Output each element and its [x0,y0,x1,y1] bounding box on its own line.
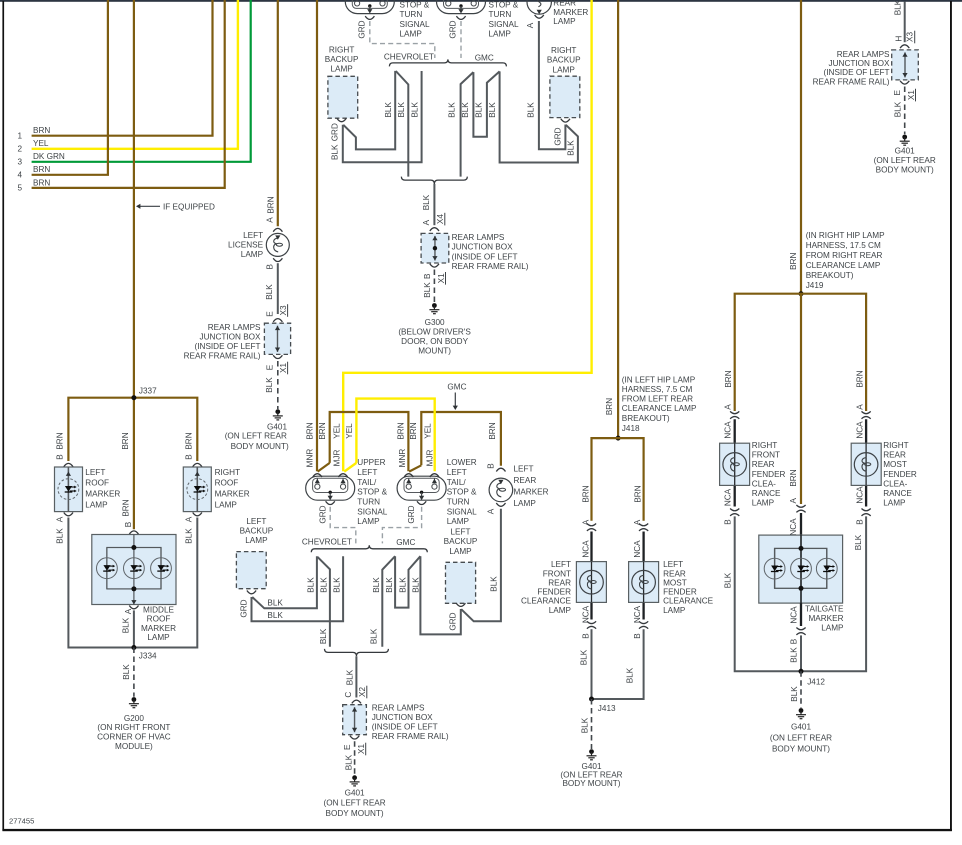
svg-text:FRONT: FRONT [543,569,571,578]
svg-text:BREAKOUT): BREAKOUT) [622,414,670,423]
node J413 [589,697,594,702]
wire NCA through right rear most clearance lamp [865,419,867,506]
wire BLK gmc backup grd to marker lamp [539,21,566,149]
label rear lamps junction box (top right) [813,50,890,86]
svg-text:X1: X1 [907,90,916,100]
svg-text:LAMP: LAMP [245,536,268,545]
lower stop & turn signal lamp connector (gmc) [437,0,486,14]
svg-text:LAMP: LAMP [85,501,108,510]
svg-text:YEL: YEL [33,139,49,148]
page bottom border [2,829,952,831]
svg-text:BRN: BRN [33,178,50,187]
label left rear most fender clearance lamp [663,560,714,615]
svg-text:YEL: YEL [345,423,354,439]
svg-text:NCA: NCA [724,421,733,439]
wire BRN J337 split to roof marker lamps [68,398,197,461]
wire BLK dashed to G200 [133,648,135,697]
left rear most fender clearance lamp [629,562,659,603]
svg-text:LEFT: LEFT [243,231,263,240]
svg-text:LAMP: LAMP [821,624,844,633]
left backup lamp (gmc) [446,562,476,603]
wire 5 BRN feed [32,0,225,188]
svg-text:BODY MOUNT): BODY MOUNT) [326,809,384,818]
svg-text:FENDER: FENDER [752,470,786,479]
svg-text:MARKER: MARKER [215,490,250,499]
label G401 (J413) [560,762,622,788]
svg-text:B: B [423,273,432,279]
connector B right rear most clearance [862,509,871,516]
svg-text:BLK: BLK [790,686,799,702]
label J419 breakout note [806,231,885,290]
svg-text:REAR LAMPS: REAR LAMPS [837,50,890,59]
svg-text:A: A [724,404,733,410]
svg-text:HARNESS, 7.5 CM: HARNESS, 7.5 CM [622,385,693,394]
svg-text:BACKUP: BACKUP [444,537,478,546]
svg-text:SIGNAL: SIGNAL [447,508,477,517]
svg-text:MODULE): MODULE) [115,742,153,751]
svg-text:B: B [487,463,496,469]
svg-text:LEFT: LEFT [246,517,266,526]
svg-text:LAMP: LAMP [241,250,264,259]
svg-text:FENDER: FENDER [537,588,571,597]
wire NCA through lamp [734,443,736,485]
grd dashed lead lower tail lamp [382,507,421,544]
wire BRN J419 to tailgate marker lamp [800,294,802,504]
svg-text:BLK: BLK [422,194,431,210]
svg-text:G401: G401 [345,788,365,797]
svg-text:DK GRN: DK GRN [33,152,65,161]
label G300 (below driver's door, on body mount) [398,318,471,356]
svg-text:(ON RIGHT FRONT: (ON RIGHT FRONT [97,723,170,732]
wire 2 YEL feed [32,0,238,149]
svg-text:(ON LEFT REAR: (ON LEFT REAR [225,431,287,440]
wire 4 BRN feed [32,0,108,175]
label left front rear fender clearance lamp [521,560,572,615]
svg-text:FENDER: FENDER [883,470,917,479]
svg-text:JUNCTION BOX: JUNCTION BOX [452,242,513,251]
svg-text:MARKER: MARKER [808,614,843,623]
wire YEL slant to MJR pin [344,463,356,472]
svg-text:A: A [855,404,864,410]
svg-text:REAR: REAR [663,569,686,578]
svg-text:MNR: MNR [398,449,407,468]
wire BLK gmc to brace (bottom) [382,556,395,647]
svg-text:BLK: BLK [567,140,576,156]
svg-text:CLEARANCE: CLEARANCE [521,597,572,606]
svg-text:B: B [724,519,733,525]
svg-text:HARNESS, 17.5 CM: HARNESS, 17.5 CM [806,241,881,250]
svg-text:J412: J412 [807,677,825,686]
svg-text:NCA: NCA [581,605,590,623]
svg-text:LAMP: LAMP [357,517,380,526]
svg-text:NCA: NCA [789,518,798,536]
svg-text:FENDER: FENDER [663,588,697,597]
svg-text:BLK: BLK [265,284,274,300]
svg-text:LAMP: LAMP [514,499,537,508]
svg-text:TURN: TURN [357,498,380,507]
svg-text:NCA: NCA [855,421,864,439]
wire BLK dashed to G300 [433,270,435,303]
right rear most fender clearance lamp [851,443,881,485]
svg-text:LOWER: LOWER [447,458,477,467]
svg-text:BLK: BLK [267,611,283,620]
svg-text:BLK: BLK [461,102,470,118]
svg-text:BLK: BLK [894,0,903,15]
svg-text:RANCE: RANCE [752,489,781,498]
svg-text:C: C [344,692,353,698]
label G401 (J412) [770,723,832,754]
svg-text:JUNCTION BOX: JUNCTION BOX [200,332,261,341]
ground G401 (J413) [587,749,597,760]
tailgate marker lamp [759,535,843,603]
svg-text:B: B [185,454,194,460]
svg-text:LAMP: LAMP [549,606,572,615]
wire BRN trunk to J337 [133,0,135,398]
svg-text:BRN: BRN [33,126,50,135]
svg-text:REAR FRAME RAIL): REAR FRAME RAIL) [813,77,890,86]
svg-text:RIGHT: RIGHT [329,45,354,54]
svg-text:GRD: GRD [407,505,416,523]
svg-text:BRN: BRN [789,469,798,486]
svg-text:BODY MOUNT): BODY MOUNT) [231,442,289,451]
wire BRN to left license lamp [277,0,279,226]
svg-text:A: A [526,22,535,28]
wire BLK tailgate lamp to J412 [800,635,802,671]
svg-text:MOST: MOST [663,578,687,587]
svg-text:BLK: BLK [333,577,342,593]
svg-text:RIGHT: RIGHT [883,441,908,450]
wire 3 DK GRN feed [32,0,251,162]
ground G401 (bottom centre) [350,775,360,786]
ground G401 (top right) [900,135,910,146]
svg-text:GMC: GMC [447,382,466,391]
ground G300 [429,303,439,314]
svg-text:MOST: MOST [883,460,907,469]
right roof marker lamp [183,467,211,512]
svg-text:BLK: BLK [331,144,340,160]
svg-text:GRD: GRD [331,123,340,141]
svg-text:LICENSE: LICENSE [228,240,264,249]
svg-text:BLK: BLK [581,717,590,733]
label right rear marker lamp (top) [553,0,588,26]
svg-text:B: B [789,638,798,644]
svg-text:LEFT: LEFT [514,465,534,474]
wire BLK dashed to G401 (top right) [904,87,906,135]
svg-text:BLK: BLK [346,669,355,685]
svg-text:4: 4 [17,171,22,180]
svg-text:LEFT: LEFT [447,468,467,477]
wire BLK right roof lamp to J334 [134,518,197,648]
grd dashed lead upper tail lamp [330,507,356,544]
svg-text:A: A [487,508,496,514]
connector A left rear most clearance [639,524,648,531]
svg-text:LAMP: LAMP [447,517,470,526]
svg-text:BLK: BLK [398,577,407,593]
wire BLK left front clearance to J413 [591,629,593,699]
svg-text:BLK: BLK [580,649,589,665]
left roof marker lamp [55,467,83,512]
svg-text:MIDDLE: MIDDLE [143,606,174,615]
label right backup lamp (gmc) [547,46,581,74]
svg-text:REAR FRAME RAIL): REAR FRAME RAIL) [184,351,261,360]
svg-text:LAMP: LAMP [400,30,423,39]
svg-text:NCA: NCA [790,606,799,624]
svg-text:BLK: BLK [854,534,863,550]
label J418 breakout note [622,375,697,433]
svg-text:BLK: BLK [344,754,353,770]
svg-text:STOP &: STOP & [357,488,387,497]
svg-text:(ON LEFT REAR: (ON LEFT REAR [874,156,936,165]
svg-text:BLK: BLK [122,664,131,680]
wire BRN trunk to J419 [800,0,802,294]
wire BRN slant to lower MNR pin [409,465,421,471]
svg-text:(BELOW DRIVER'S: (BELOW DRIVER'S [398,328,471,337]
svg-text:CLEA-: CLEA- [752,479,776,488]
label G200 (on right front corner of HVAC module) [97,714,171,751]
svg-text:B: B [56,454,65,460]
svg-text:REAR: REAR [514,476,537,485]
svg-text:SIGNAL: SIGNAL [357,508,387,517]
svg-text:H: H [894,36,903,42]
lower left tail/stop & turn signal lamp [397,476,446,500]
left license lamp [266,233,289,256]
svg-text:B: B [581,633,590,639]
brace gather to X4 [401,177,467,184]
svg-text:BACKUP: BACKUP [325,55,359,64]
connector B tailgate marker [796,628,805,635]
brace chevrolet/gmc (top) [389,59,506,66]
svg-text:BLK: BLK [423,282,432,298]
svg-text:J413: J413 [598,704,616,713]
svg-text:(IN LEFT HIP LAMP: (IN LEFT HIP LAMP [622,375,696,384]
svg-text:A: A [124,608,133,614]
svg-text:LAMP: LAMP [147,633,170,642]
wire NCA through lamp [865,443,867,485]
label lower left tail/stop & turn signal lamp [447,458,477,526]
node J337 [131,395,136,400]
wire YEL trunk to upper left tail lamp MJR [343,0,591,471]
svg-text:TAIL/: TAIL/ [447,478,467,487]
svg-text:REAR LAMPS: REAR LAMPS [372,704,425,713]
svg-text:BRN: BRN [724,370,733,387]
wire BLK left rear most clearance to J413 [592,629,644,699]
svg-text:MARKER: MARKER [141,624,176,633]
svg-text:J418: J418 [622,424,640,433]
wire BRN J418 split to left clearance lamps [592,438,644,521]
connector A right rear most clearance [862,411,871,418]
svg-text:B: B [124,521,133,527]
rear lamps junction box (X2/X1, bottom centre) [343,705,367,735]
svg-text:TAILGATE: TAILGATE [805,605,844,614]
svg-text:BODY MOUNT): BODY MOUNT) [562,779,620,788]
svg-text:BRN: BRN [488,422,497,439]
svg-text:BACKUP: BACKUP [547,56,581,65]
ground G401 (J412) [796,708,806,719]
wire BLK to X4 [433,184,435,225]
svg-text:YEL: YEL [424,423,433,439]
svg-text:BLK: BLK [265,377,274,393]
svg-text:G401: G401 [267,422,287,431]
svg-text:X1: X1 [437,273,446,283]
wire BLK license lamp to X3 [277,263,279,314]
wire BLK dashed to G401 (left) [277,361,279,409]
wire NCA into tailgate marker lamp [800,513,802,535]
svg-text:BLK: BLK [488,102,497,118]
svg-text:G200: G200 [124,714,144,723]
svg-text:STOP &: STOP & [489,1,519,10]
svg-text:BRN: BRN [267,196,276,213]
label right rear most fender clearance lamp [883,441,917,508]
brace chevrolet/gmc (centre) [311,545,427,552]
label rear lamps junction box (left) [184,323,261,361]
wire NCA through left rear most clearance lamp [642,532,644,620]
svg-text:NCA: NCA [855,486,864,504]
label stop & turn signal lamp (chevrolet) [400,1,430,39]
svg-text:CLEARANCE LAMP: CLEARANCE LAMP [622,404,697,413]
svg-text:LAMP: LAMP [883,499,906,508]
svg-text:CHEVROLET: CHEVROLET [384,52,434,61]
wire BLK gmc to brace [461,72,474,177]
wire BRN J337 to middle roof marker lamp [133,398,135,530]
svg-text:RIGHT: RIGHT [215,468,240,477]
svg-text:TURN: TURN [400,10,423,19]
svg-text:MARKER: MARKER [553,8,588,17]
svg-text:REAR LAMPS: REAR LAMPS [208,323,261,332]
svg-text:BLK: BLK [490,576,499,592]
label middle roof marker lamp [141,606,176,643]
wire BRN trunk to J418 [617,0,619,438]
svg-text:BLK: BLK [397,102,406,118]
svg-text:BLK: BLK [724,572,733,588]
svg-text:BLK: BLK [410,102,419,118]
label right roof marker lamp [215,468,250,510]
svg-text:BACKUP: BACKUP [240,527,274,536]
svg-text:GMC: GMC [475,54,494,63]
rear lamps junction box (top right) [892,50,919,80]
svg-text:REAR FRAME RAIL): REAR FRAME RAIL) [452,262,529,271]
wire BLK chevrolet backup grd [343,71,395,149]
label left rear marker lamp [514,465,549,509]
svg-text:MARKER: MARKER [514,488,549,497]
wire BLK left roof lamp to J334 [68,518,133,648]
wire BLK dashed to G401 (bottom centre) [354,741,356,775]
svg-text:MNR: MNR [305,449,314,468]
connector B left rear most clearance [639,621,648,628]
wire BLK to X2 [355,656,357,697]
svg-text:FRONT: FRONT [752,451,780,460]
svg-text:BRN: BRN [856,370,865,387]
label stop & turn signal lamp (gmc) [489,1,519,39]
svg-text:BRN: BRN [56,432,65,449]
svg-text:GRD: GRD [358,20,367,38]
svg-text:CLEARANCE: CLEARANCE [663,597,714,606]
svg-text:(INSIDE OF LEFT: (INSIDE OF LEFT [372,723,438,732]
connector B right front clearance [730,509,739,516]
svg-text:REAR: REAR [548,578,571,587]
svg-text:(INSIDE OF LEFT: (INSIDE OF LEFT [195,342,261,351]
svg-text:ROOF: ROOF [215,479,239,488]
middle roof marker lamp [92,535,176,605]
svg-text:LAMP: LAMP [752,499,775,508]
wire YEL link tail lamp MJR [356,399,434,472]
svg-text:LAMP: LAMP [449,547,472,556]
label left backup lamp (gmc) [444,528,478,556]
svg-text:GRD: GRD [553,127,562,145]
svg-text:A: A [185,516,194,522]
svg-text:BLK: BLK [319,628,328,644]
grd dashed lead, gmc stop lamp [460,21,462,58]
label rear lamps junction box (bottom centre) [372,704,449,742]
connector A left front clearance [587,524,596,531]
svg-text:FROM RIGHT REAR: FROM RIGHT REAR [806,251,883,260]
rear lamps junction box (left license branch) [264,323,290,354]
svg-text:ROOF: ROOF [85,479,109,488]
right backup lamp (chevrolet) [328,76,358,118]
svg-text:REAR FRAME RAIL): REAR FRAME RAIL) [372,732,449,741]
label G401 (bottom centre) [324,788,386,818]
brace gather to X2 [325,649,389,656]
svg-text:BRN: BRN [122,499,131,516]
wire NCA through right front clearance lamp [734,419,736,506]
svg-text:LEFT: LEFT [357,468,377,477]
svg-text:E: E [266,311,275,317]
svg-text:CORNER OF HVAC: CORNER OF HVAC [97,733,171,742]
svg-text:BRN: BRN [318,422,327,439]
svg-text:BLK: BLK [475,102,484,118]
grd dashed lead, chevrolet stop lamp [370,21,435,58]
left rear marker lamp [489,478,513,502]
svg-text:G300: G300 [425,318,445,327]
label left license lamp [228,231,264,259]
wire BLK right front clearance to J412 [735,516,801,671]
svg-text:X4: X4 [436,214,445,224]
wire BLK gmc loop [473,71,499,136]
svg-text:JUNCTION BOX: JUNCTION BOX [829,59,890,68]
svg-text:RIGHT: RIGHT [752,441,777,450]
svg-text:BRN: BRN [33,165,50,174]
wire BRN gmc feed to lower tail MNR and left rear marker [421,412,501,466]
svg-text:BLK: BLK [789,647,798,663]
svg-text:277455: 277455 [9,817,34,826]
svg-text:BRN: BRN [396,422,405,439]
svg-text:BLK: BLK [306,577,315,593]
svg-text:A: A [789,498,798,504]
svg-text:X1: X1 [357,744,366,754]
svg-text:YEL: YEL [333,423,342,439]
connector A right front clearance [730,411,739,418]
wire NCA through lamp [591,562,593,603]
wire BLK dashed to G401 (J412) [800,671,802,708]
svg-text:BODY MOUNT): BODY MOUNT) [876,166,934,175]
svg-text:BREAKOUT): BREAKOUT) [806,271,854,280]
svg-text:BLK: BLK [372,577,381,593]
svg-text:5: 5 [17,184,22,193]
svg-text:B: B [633,633,642,639]
svg-text:GRD: GRD [239,599,248,617]
right rear marker lamp (top, cut) [527,0,551,14]
wire BRN link tail lamp MNR chevrolet [330,412,409,471]
svg-text:J334: J334 [139,652,157,661]
svg-text:CHEVROLET: CHEVROLET [302,537,352,546]
svg-text:BRN: BRN [305,422,314,439]
svg-text:LEFT: LEFT [85,468,105,477]
svg-text:CLEA-: CLEA- [883,479,907,488]
wire BLK left rear marker to backup lamp [461,509,501,622]
svg-text:TAIL/: TAIL/ [357,478,377,487]
svg-text:B: B [266,264,275,270]
label right backup lamp (chevrolet) [325,45,359,73]
svg-text:BRN: BRN [582,485,591,502]
